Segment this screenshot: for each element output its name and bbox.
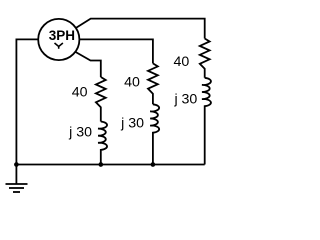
svg-text:40: 40 (124, 75, 140, 91)
svg-text:j 30: j 30 (120, 116, 144, 132)
svg-text:3PH: 3PH (49, 28, 75, 43)
svg-text:j 30: j 30 (68, 124, 92, 140)
svg-text:j 30: j 30 (173, 92, 197, 108)
svg-text:40: 40 (72, 84, 88, 100)
svg-text:40: 40 (174, 54, 190, 70)
